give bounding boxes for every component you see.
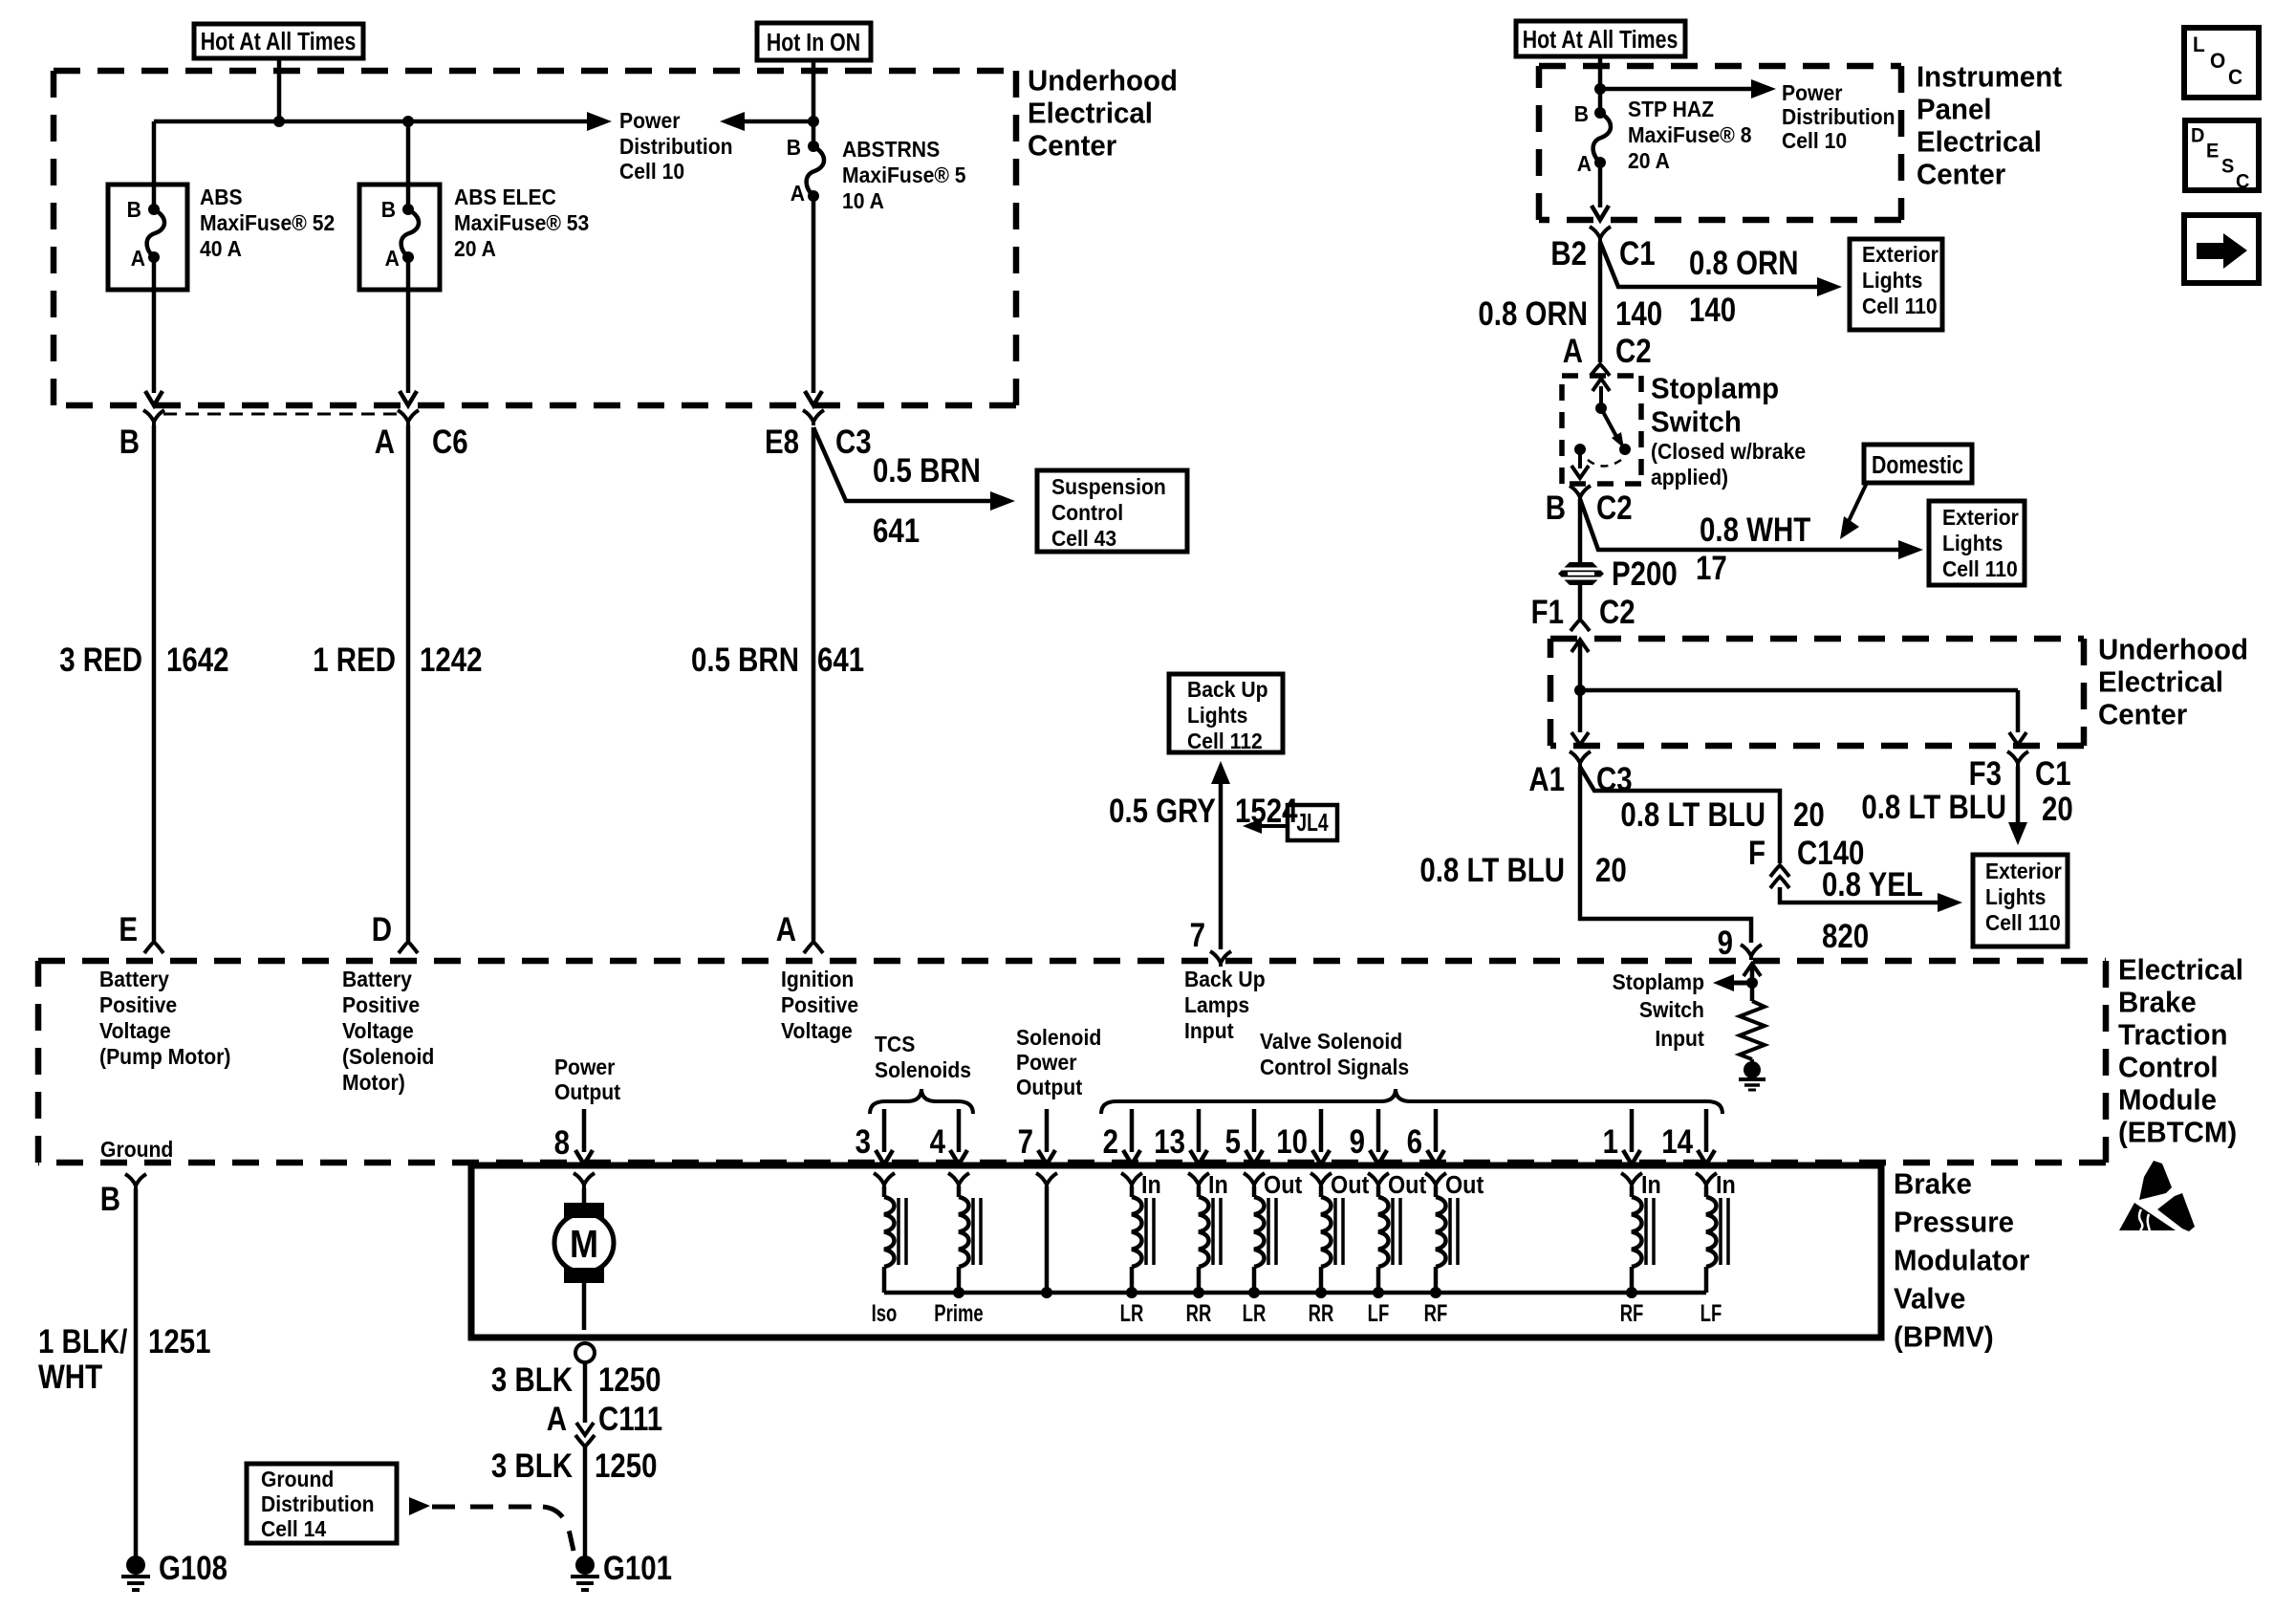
svg-text:RF: RF <box>1620 1299 1644 1326</box>
svg-text:3 BLK: 3 BLK <box>491 1360 574 1398</box>
BPMV pin 9 valve solenoid (Out) <box>1376 1109 1381 1152</box>
wire: 0.8 LT BLU 20 branch to C140 <box>1580 767 1780 863</box>
wire: 1 RED 1242 <box>406 425 411 941</box>
svg-text:LR: LR <box>1243 1299 1267 1326</box>
svg-text:Cell 112: Cell 112 <box>1187 729 1263 753</box>
wire: 0.5 BRN 641 <box>812 427 816 941</box>
component box: Exterior Lights Cell 110 (top) <box>1850 239 1942 330</box>
svg-text:Brake: Brake <box>2118 987 2197 1019</box>
solenoid power feed wire <box>1036 1173 1057 1188</box>
svg-text:M: M <box>570 1223 598 1267</box>
svg-text:14: 14 <box>1661 1121 1693 1160</box>
svg-text:20 A: 20 A <box>1628 148 1670 173</box>
svg-text:STP HAZ: STP HAZ <box>1628 97 1714 121</box>
svg-text:Positive: Positive <box>781 992 858 1017</box>
svg-text:(EBTCM): (EBTCM) <box>2118 1117 2237 1149</box>
svg-text:RR: RR <box>1309 1299 1334 1326</box>
junction dot <box>1594 83 1606 95</box>
TCS solenoids brace <box>870 1089 973 1114</box>
connector: EBTCM pin A <box>804 942 823 953</box>
svg-text:C1: C1 <box>2035 753 2071 792</box>
BPMV pin 7 (Solenoid Power) <box>1045 1109 1050 1152</box>
wire: fuse 52 to connector B <box>152 257 157 393</box>
svg-text:Hot At All Times: Hot At All Times <box>1523 26 1679 54</box>
svg-text:0.8 LT BLU: 0.8 LT BLU <box>1861 787 2006 825</box>
svg-text:Power: Power <box>619 108 681 133</box>
svg-text:E8: E8 <box>765 422 799 460</box>
BPMV box <box>471 1165 1881 1338</box>
svg-text:B: B <box>127 197 141 222</box>
svg-text:In: In <box>1208 1172 1228 1199</box>
connector: EBTCM pin 9 <box>1741 945 1762 960</box>
svg-text:5: 5 <box>1225 1121 1241 1160</box>
wire: power bus <box>154 120 599 124</box>
svg-text:0.8 YEL: 0.8 YEL <box>1822 864 1923 903</box>
EBTCM pin 8 wire (Power Output) <box>582 1109 587 1152</box>
svg-text:641: 641 <box>817 640 864 678</box>
LOC box <box>2184 28 2259 98</box>
dashed pointer from Ground Distribution <box>409 1497 430 1515</box>
svg-text:Out: Out <box>1388 1172 1426 1199</box>
svg-text:820: 820 <box>1822 916 1869 954</box>
svg-text:Underhood: Underhood <box>2098 634 2248 666</box>
wire: into box (arrow up) <box>1571 640 1589 652</box>
svg-text:0.8 LT BLU: 0.8 LT BLU <box>1419 850 1565 888</box>
connector B <box>143 410 164 425</box>
svg-text:Module: Module <box>2118 1084 2217 1117</box>
svg-text:Input: Input <box>1184 1018 1234 1043</box>
bus junction dot <box>1315 1287 1327 1298</box>
bus junction dot <box>1430 1287 1441 1298</box>
svg-text:Domestic: Domestic <box>1872 451 1963 480</box>
svg-text:Cell 110: Cell 110 <box>1862 294 1938 318</box>
svg-text:Exterior: Exterior <box>1942 505 2019 530</box>
bus junction dot <box>1248 1287 1260 1298</box>
resistor (stoplamp pull-down) <box>1740 1001 1765 1059</box>
svg-text:0.5 GRY: 0.5 GRY <box>1109 791 1216 829</box>
svg-text:B: B <box>100 1179 120 1217</box>
BPMV pin 10 valve solenoid (Out) <box>1319 1109 1324 1152</box>
fuse F53 ABS ELEC MaxiFuse 53 20A <box>359 185 440 290</box>
connector E8 C3 <box>803 410 824 425</box>
svg-text:Suspension: Suspension <box>1051 474 1166 499</box>
svg-text:Positive: Positive <box>342 992 420 1017</box>
svg-text:Instrument: Instrument <box>1917 61 2062 94</box>
svg-text:Switch: Switch <box>1651 406 1742 439</box>
connector line (dashed) <box>163 413 399 416</box>
svg-text:Ground: Ground <box>100 1137 173 1162</box>
switch dashed throw arc <box>1588 460 1621 467</box>
svg-text:0.8 LT BLU: 0.8 LT BLU <box>1620 794 1765 833</box>
svg-text:D: D <box>372 909 392 947</box>
connector B2 C1 <box>1590 227 1611 242</box>
svg-text:2: 2 <box>1103 1121 1118 1160</box>
svg-text:Power: Power <box>554 1055 616 1079</box>
label box: JL4 <box>1288 805 1337 840</box>
junction dot <box>808 116 819 127</box>
svg-text:C1: C1 <box>1619 233 1656 272</box>
svg-text:O: O <box>2210 50 2225 74</box>
svg-text:Electrical: Electrical <box>1028 98 1153 130</box>
svg-text:A1: A1 <box>1528 759 1565 797</box>
svg-text:B: B <box>1574 101 1589 126</box>
svg-text:8: 8 <box>554 1122 570 1161</box>
BPMV pin 5 valve solenoid (Out) <box>1252 1109 1257 1152</box>
svg-text:20 A: 20 A <box>454 236 496 261</box>
label box: Hot At All Times (left) <box>194 24 363 58</box>
svg-text:Power: Power <box>1016 1050 1077 1075</box>
fuse F52 ABS MaxiFuse 52 40A <box>108 185 187 290</box>
svg-text:WHT: WHT <box>38 1357 102 1395</box>
connector: EBTCM pin D <box>399 942 418 953</box>
svg-text:Electrical: Electrical <box>2118 954 2243 987</box>
svg-text:20: 20 <box>1793 794 1825 833</box>
svg-text:Lights: Lights <box>1985 884 2046 909</box>
connector: EBTCM pin E <box>144 942 163 953</box>
BPMV pin 3 (Iso) <box>882 1109 887 1152</box>
ground G101 <box>575 1556 595 1575</box>
bus junction dot <box>1373 1287 1384 1298</box>
junction dot <box>1574 685 1586 696</box>
svg-text:Iso: Iso <box>872 1299 898 1326</box>
label box: Domestic <box>1864 445 1972 483</box>
component box: Ground Distribution Cell 14 <box>247 1464 397 1543</box>
svg-text:In: In <box>1141 1172 1161 1199</box>
svg-text:C111: C111 <box>598 1399 662 1437</box>
wire: fuse to connector E8 <box>812 196 816 393</box>
svg-text:9: 9 <box>1350 1121 1365 1160</box>
svg-text:Cell 110: Cell 110 <box>1942 556 2018 581</box>
fuse ABSTRNS MaxiFuse 5 10A <box>808 141 819 152</box>
switch contact <box>1574 444 1586 455</box>
svg-text:Distribution: Distribution <box>619 134 733 159</box>
ESD sensitive symbol <box>2139 1161 2172 1200</box>
svg-text:L: L <box>2193 33 2205 57</box>
svg-text:Hot In ON: Hot In ON <box>767 29 860 57</box>
svg-text:C2: C2 <box>1596 488 1633 526</box>
splice P200 <box>1558 562 1604 585</box>
svg-text:Out: Out <box>1331 1172 1369 1199</box>
svg-text:10: 10 <box>1276 1121 1308 1160</box>
svg-text:641: 641 <box>873 511 920 549</box>
switch blade <box>1601 408 1619 442</box>
svg-text:TCS: TCS <box>875 1032 915 1056</box>
connector: BPMV pin 8 <box>574 1173 595 1188</box>
label box: Hot In ON <box>757 23 871 60</box>
svg-text:1: 1 <box>1603 1121 1618 1160</box>
DESC box <box>2185 120 2259 190</box>
svg-text:ABSTRNS: ABSTRNS <box>842 137 940 162</box>
svg-text:Ignition: Ignition <box>781 967 854 991</box>
bus junction dot <box>1126 1287 1137 1298</box>
svg-text:Output: Output <box>554 1079 621 1104</box>
arrow box <box>2184 215 2259 283</box>
svg-text:Solenoids: Solenoids <box>875 1057 971 1082</box>
svg-text:MaxiFuse® 53: MaxiFuse® 53 <box>454 210 589 235</box>
Iso solenoid coil <box>874 1173 895 1188</box>
wire: arrow to Power Distribution <box>732 120 813 124</box>
svg-text:Stoplamp: Stoplamp <box>1651 373 1779 405</box>
svg-text:Control: Control <box>2118 1052 2219 1084</box>
svg-text:A: A <box>776 909 796 947</box>
svg-text:Ground: Ground <box>261 1467 334 1491</box>
svg-text:1242: 1242 <box>420 640 483 678</box>
arrow from JL4 <box>1257 824 1288 828</box>
svg-text:Pressure: Pressure <box>1894 1207 2014 1239</box>
wire: 0.8 LT BLU 20 to Exterior Lights (right) <box>2016 767 2021 833</box>
svg-text:13: 13 <box>1154 1121 1185 1160</box>
solenoid common bus <box>884 1291 1706 1295</box>
connector F1 C2 <box>1570 620 1590 631</box>
svg-text:P200: P200 <box>1612 554 1678 592</box>
svg-text:Battery: Battery <box>342 967 412 991</box>
svg-text:MaxiFuse® 52: MaxiFuse® 52 <box>200 210 335 235</box>
svg-text:F1: F1 <box>1531 592 1564 630</box>
connector F3 C1 <box>2007 751 2028 767</box>
svg-text:Positive: Positive <box>99 992 177 1017</box>
svg-text:Output: Output <box>1016 1075 1083 1099</box>
wire: Hot In ON feed <box>812 60 816 146</box>
svg-text:10 A: 10 A <box>842 188 884 213</box>
svg-text:C2: C2 <box>1615 331 1652 369</box>
svg-text:Lights: Lights <box>1187 703 1247 728</box>
svg-text:JL4: JL4 <box>1296 808 1328 837</box>
svg-text:A: A <box>1577 151 1592 176</box>
svg-text:A: A <box>375 422 395 460</box>
BPMV pin 6 valve solenoid (Out) <box>1434 1109 1439 1152</box>
component box: Exterior Lights Cell 110 (mid) <box>1929 501 2025 585</box>
svg-text:Panel: Panel <box>1917 94 1992 126</box>
svg-text:A: A <box>385 246 400 271</box>
svg-text:C: C <box>2236 170 2250 193</box>
EBTCM box (dashed) <box>38 958 2106 965</box>
svg-text:Cell 110: Cell 110 <box>1985 910 2061 935</box>
svg-text:Control Signals: Control Signals <box>1260 1055 1409 1079</box>
wire: feed to fuse 53 <box>406 121 411 209</box>
svg-text:17: 17 <box>1696 548 1727 586</box>
svg-text:Switch: Switch <box>1639 997 1704 1022</box>
svg-text:D: D <box>2191 124 2204 147</box>
wire: 0.8 ORN branch to Exterior Lights <box>1600 242 1830 287</box>
component box: Back Up Lights Cell 112 <box>1169 674 1283 752</box>
svg-text:0.8 ORN: 0.8 ORN <box>1689 243 1799 281</box>
svg-text:6: 6 <box>1407 1121 1422 1160</box>
wire: 0.5 GRY 1524 to Back Up Lights <box>1219 774 1224 949</box>
svg-text:A: A <box>1563 331 1583 369</box>
svg-text:Electrical: Electrical <box>1917 126 2042 159</box>
svg-text:3: 3 <box>856 1121 871 1160</box>
svg-text:(BPMV): (BPMV) <box>1894 1321 1994 1354</box>
svg-text:Exterior: Exterior <box>1862 242 1939 267</box>
svg-text:20: 20 <box>2042 789 2073 827</box>
connector F C140 <box>1770 865 1789 877</box>
svg-text:Battery: Battery <box>99 967 169 991</box>
svg-text:B: B <box>381 197 396 222</box>
Prime solenoid coil <box>948 1173 969 1188</box>
svg-text:LR: LR <box>1120 1299 1144 1326</box>
svg-text:B: B <box>119 422 140 460</box>
svg-text:Valve Solenoid: Valve Solenoid <box>1260 1029 1402 1054</box>
svg-text:Center: Center <box>1028 130 1116 163</box>
svg-text:1250: 1250 <box>595 1446 658 1484</box>
svg-text:Exterior: Exterior <box>1985 859 2062 883</box>
Stoplamp Switch box (dashed) <box>1562 373 1641 379</box>
component box: Exterior Lights Cell 110 (bottom) <box>1973 855 2068 946</box>
connector A C6 <box>398 410 419 425</box>
svg-text:Back Up: Back Up <box>1187 677 1268 702</box>
svg-text:9: 9 <box>1718 923 1733 961</box>
ground G108 <box>126 1556 145 1575</box>
svg-text:Electrical: Electrical <box>2098 666 2223 699</box>
svg-text:ABS ELEC: ABS ELEC <box>454 185 556 209</box>
svg-text:(Closed w/brake: (Closed w/brake <box>1651 439 1806 464</box>
wire: feed to fuse 52 <box>152 121 157 209</box>
svg-text:In: In <box>1641 1172 1661 1199</box>
svg-text:MaxiFuse® 8: MaxiFuse® 8 <box>1628 122 1752 147</box>
svg-text:Motor): Motor) <box>342 1070 405 1095</box>
junction dot <box>273 116 285 127</box>
wire: switch to splice <box>1578 499 1583 564</box>
fuse STP HAZ MaxiFuse 8 20A <box>1594 107 1606 119</box>
svg-text:3 RED: 3 RED <box>59 640 142 678</box>
svg-text:C: C <box>2228 66 2242 90</box>
svg-text:A: A <box>547 1399 567 1437</box>
svg-text:0.8 ORN: 0.8 ORN <box>1478 294 1588 332</box>
BPMV pin 14 valve solenoid (In) <box>1704 1109 1709 1152</box>
wire: fuse 8 to connector B2 <box>1598 163 1603 207</box>
BPMV pin 1 valve solenoid (In) <box>1630 1109 1635 1152</box>
svg-text:Center: Center <box>1917 159 2005 191</box>
wire: fuse 53 to connector C6 <box>406 257 411 393</box>
svg-text:Power: Power <box>1782 80 1843 105</box>
bus junction dot <box>1041 1287 1052 1298</box>
svg-text:(Pump Motor): (Pump Motor) <box>99 1044 230 1069</box>
svg-text:Center: Center <box>2098 699 2187 731</box>
svg-text:C6: C6 <box>432 422 468 460</box>
wire: 0.8 WHT to Exterior Lights <box>1580 499 1912 550</box>
svg-text:applied): applied) <box>1651 465 1728 490</box>
svg-text:In: In <box>1716 1172 1736 1199</box>
svg-text:G108: G108 <box>159 1548 227 1586</box>
svg-text:4: 4 <box>930 1121 945 1160</box>
connector A C2 <box>1591 364 1610 376</box>
svg-text:Cell 10: Cell 10 <box>619 159 684 184</box>
svg-text:C2: C2 <box>1599 592 1635 630</box>
motor ground circle <box>575 1343 595 1362</box>
svg-text:C3: C3 <box>835 422 872 460</box>
Underhood Electrical Center box (dashed) <box>54 68 1016 75</box>
svg-text:Lamps: Lamps <box>1184 992 1249 1017</box>
svg-text:140: 140 <box>1615 294 1662 332</box>
svg-text:B: B <box>1546 488 1566 526</box>
svg-text:A: A <box>131 246 145 271</box>
svg-text:Stoplamp: Stoplamp <box>1613 969 1704 994</box>
svg-text:20: 20 <box>1595 850 1627 888</box>
svg-text:G101: G101 <box>603 1548 672 1586</box>
svg-text:Underhood: Underhood <box>1028 65 1178 98</box>
svg-text:Control: Control <box>1051 500 1123 525</box>
svg-text:MaxiFuse® 5: MaxiFuse® 5 <box>842 163 966 187</box>
svg-text:Brake: Brake <box>1894 1168 1972 1201</box>
svg-text:Voltage: Voltage <box>342 1018 414 1043</box>
svg-text:A: A <box>791 181 805 206</box>
svg-text:Cell 43: Cell 43 <box>1051 526 1116 551</box>
svg-text:E: E <box>119 909 138 947</box>
bus junction dot <box>1193 1287 1204 1298</box>
connector C111 <box>575 1435 595 1447</box>
wire: left leg down <box>1578 690 1583 732</box>
svg-text:RF: RF <box>1424 1299 1448 1326</box>
arrow from Domestic <box>1849 483 1867 521</box>
svg-text:Out: Out <box>1445 1172 1484 1199</box>
Underhood Electrical Center box 2 (dashed) <box>1550 636 2084 642</box>
BPMV pin 4 (Prime) <box>957 1109 962 1152</box>
svg-text:Modulator: Modulator <box>1894 1245 2029 1277</box>
svg-text:Traction: Traction <box>2118 1019 2227 1052</box>
BPMV pin 2 valve solenoid (In) <box>1130 1109 1135 1152</box>
svg-text:E: E <box>2206 140 2219 163</box>
wire: splice to F1 <box>1578 584 1583 619</box>
svg-text:S: S <box>2221 155 2234 178</box>
svg-text:Distribution: Distribution <box>261 1491 375 1516</box>
svg-text:RR: RR <box>1186 1299 1212 1326</box>
valve solenoid brace <box>1101 1089 1722 1114</box>
stoplamp switch input: arrow and resistor <box>1744 964 1761 976</box>
wire: 3 RED 1642 <box>152 425 157 941</box>
svg-text:0.8 WHT: 0.8 WHT <box>1700 510 1810 548</box>
svg-text:Back Up: Back Up <box>1184 967 1266 991</box>
svg-text:7: 7 <box>1190 915 1205 953</box>
svg-text:Lights: Lights <box>1862 268 1922 293</box>
wire: 0.8 YEL 820 to Exterior Lights <box>1780 887 1951 903</box>
bus junction dot <box>953 1287 964 1298</box>
svg-text:F: F <box>1748 833 1765 871</box>
label box: Hot At All Times (right) <box>1516 21 1685 56</box>
wire: arrow to Power Distribution (IP) <box>1600 87 1765 92</box>
wire: feed to fuse 8 <box>1598 56 1603 113</box>
arrow to Power Distribution <box>587 112 612 131</box>
svg-text:Lights: Lights <box>1942 531 2003 555</box>
svg-text:LF: LF <box>1700 1299 1722 1326</box>
connector B C2 (switch out) <box>1570 486 1591 501</box>
svg-text:Cell 14: Cell 14 <box>261 1516 327 1541</box>
connector A1 C3 <box>1570 751 1591 767</box>
svg-text:1 RED: 1 RED <box>313 640 396 678</box>
Instrument Panel Electrical Center box (dashed) <box>1539 63 1901 70</box>
EBTCM pin B ground wire <box>125 1174 146 1189</box>
svg-text:40 A: 40 A <box>200 236 242 261</box>
svg-text:Hot At All Times: Hot At All Times <box>201 28 357 56</box>
wire: 0.8 ORN 140 <box>1598 242 1603 362</box>
wire: 0.5 BRN branch to Suspension Control <box>813 427 1004 501</box>
svg-text:0.5 BRN: 0.5 BRN <box>873 450 981 489</box>
svg-text:3 BLK: 3 BLK <box>491 1446 574 1484</box>
svg-text:Out: Out <box>1264 1172 1302 1199</box>
svg-text:1250: 1250 <box>598 1360 661 1398</box>
svg-text:ABS: ABS <box>200 185 243 209</box>
svg-text:LF: LF <box>1368 1299 1390 1326</box>
svg-text:Voltage: Voltage <box>99 1018 171 1043</box>
svg-text:B: B <box>787 135 801 160</box>
pump motor M <box>582 1188 587 1205</box>
svg-text:Distribution: Distribution <box>1782 104 1895 129</box>
connector: EBTCM pin 7 <box>1210 951 1231 967</box>
wire: 3 BLK 1250 to G101 <box>583 1447 588 1556</box>
wire: box internal jumper <box>1580 688 2018 693</box>
svg-text:B2: B2 <box>1550 233 1587 272</box>
svg-text:0.5 BRN: 0.5 BRN <box>691 640 799 678</box>
BPMV pin 13 valve solenoid (In) <box>1197 1109 1202 1152</box>
